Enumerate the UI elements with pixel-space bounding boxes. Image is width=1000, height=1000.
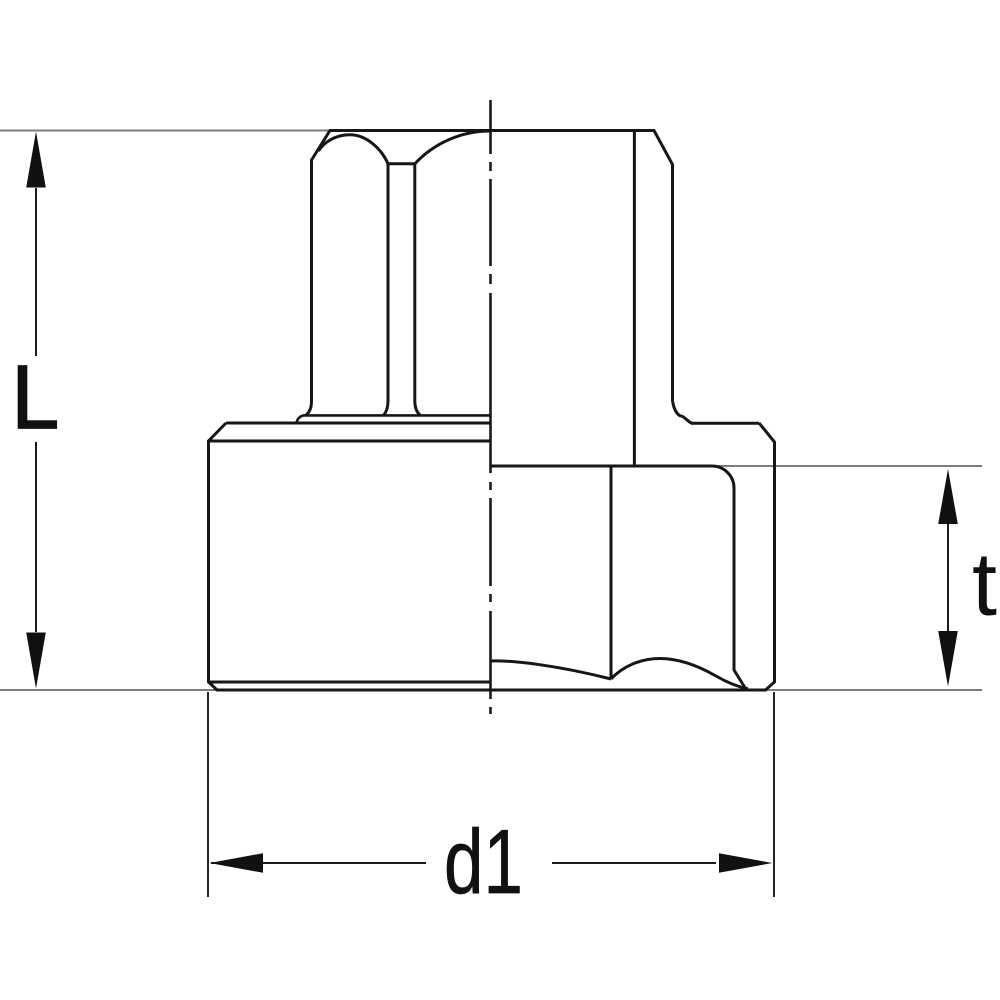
svg-text:t: t (972, 535, 997, 635)
bottom face line left (209, 681, 491, 684)
flange chamfer circle line C (209, 440, 491, 443)
svg-text:d1: d1 (444, 812, 523, 913)
flange top face line B right (section) (691, 422, 759, 425)
lower body outline (209, 423, 775, 690)
hex edge strip left line (384, 164, 389, 416)
hex edge strip right line (415, 164, 421, 416)
extension line bottom (for L and t) (0, 689, 982, 691)
dimension d1 line left (211, 862, 426, 864)
upper body fillet right (673, 401, 693, 423)
dimension t arrow down (938, 631, 958, 687)
extension line d1 right (773, 692, 775, 897)
extension line top (for L) (0, 130, 654, 132)
upper body outline left (312, 131, 673, 402)
dimension L arrow up (26, 132, 46, 188)
extension line right middle (for t) (700, 465, 982, 467)
hex lobe right arc (415, 131, 491, 164)
svg-text:L: L (12, 347, 60, 447)
dimension d1 arrow left (210, 853, 264, 873)
dimension d1 arrow right (719, 853, 773, 873)
section: cavity floor (491, 466, 746, 689)
section: hex mouth wave left (491, 661, 612, 679)
dimension L line upper (35, 188, 37, 356)
dimension d1 line right (552, 862, 716, 864)
centerline (489, 100, 492, 714)
upper body flare bottom left (306, 401, 312, 415)
section: drive bore wall (633, 131, 636, 466)
hex edge strip top (388, 162, 415, 165)
section: hex mouth wave hump (611, 659, 748, 689)
section: hex corner edge (610, 466, 613, 679)
flange fillet line A (303, 414, 491, 417)
flange top face line B (226, 422, 491, 425)
dimension L arrow down (26, 633, 46, 689)
extension line d1 left (207, 692, 209, 897)
flange fillet end arc (297, 415, 304, 422)
dimension t line (947, 523, 949, 632)
dimension L line lower (35, 442, 37, 632)
dimension t arrow up (938, 469, 958, 524)
hex lobe dome (319, 135, 389, 164)
